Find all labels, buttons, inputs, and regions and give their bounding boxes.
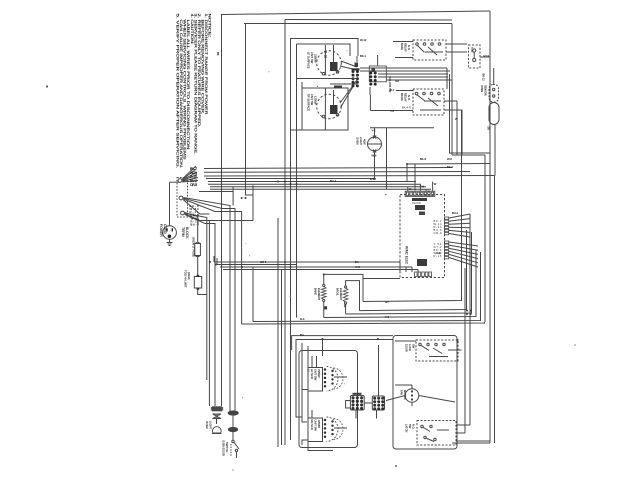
wire bus C2 left elbow — [216, 258, 218, 265]
relay K2 contact — [415, 92, 418, 95]
svg-text:Y-2: Y-2 — [390, 109, 394, 113]
R2 lead top — [345, 286, 347, 288]
connector P4 pin — [422, 272, 425, 277]
wire sw1 low link — [330, 83, 357, 85]
surface unit box inner — [297, 44, 351, 56]
wire vertical x470 — [469, 214, 471, 425]
terminal cluster A dot — [356, 70, 359, 73]
terminal cluster A dot — [356, 77, 359, 80]
wire fan C3 — [185, 214, 210, 406]
thermal fuse term 2 — [473, 58, 476, 61]
svg-text:BK-1: BK-1 — [360, 54, 366, 58]
wire bus C2 — [217, 264, 297, 266]
wire sw cluster right 1 — [360, 67, 447, 69]
label low link — [334, 86, 342, 88]
SW3 wire top — [322, 339, 324, 356]
wire to lock switch — [387, 79, 453, 81]
terminal grid TG1 dot — [356, 400, 359, 403]
svg-text:BROIL: BROIL — [400, 93, 404, 102]
SW3 contact dot a — [324, 377, 327, 380]
thermal fuse dashed box — [469, 45, 481, 68]
terminal grid TG1 dot — [360, 396, 363, 399]
wire P2 fan — [449, 214, 470, 218]
wire x302 down to box — [302, 343, 307, 422]
wire K1 left bottom — [395, 57, 413, 59]
wire drop to connector row — [419, 184, 421, 191]
relay K2 contact — [430, 92, 433, 95]
wire B3 branch down — [232, 187, 234, 206]
wire oval link — [232, 416, 234, 428]
svg-text:W-8: W-8 — [447, 157, 452, 161]
wire bus C4 — [223, 269, 418, 271]
terminal ring C — [181, 211, 185, 215]
wire OL1 up — [374, 128, 376, 137]
terminal ring B — [179, 196, 183, 200]
terminal cluster B dot — [369, 72, 372, 75]
SW2 lead bottom — [324, 117, 326, 130]
SW3 contact dot a — [324, 385, 327, 388]
relay K2 wire low — [420, 109, 441, 111]
wire plug top link — [170, 181, 180, 183]
wire vertical x370 relay — [369, 95, 371, 111]
svg-text:W/MC ELEC: W/MC ELEC — [405, 246, 409, 265]
wire P3 fan — [449, 248, 478, 254]
door switch term 2 — [235, 449, 237, 451]
wire vertical x415 from A1 — [414, 164, 416, 191]
wire bus C3 — [220, 266, 412, 268]
junction dot — [290, 183, 292, 185]
wire R1 top loop — [324, 274, 363, 301]
junction dot — [466, 310, 468, 312]
wire bus B4 — [210, 188, 431, 190]
terminal grid TG1 dot — [360, 400, 363, 403]
relay K2 contact — [423, 92, 426, 95]
fan motor M1 — [405, 389, 419, 403]
connector P1 outline — [405, 191, 435, 196]
svg-text:UNIT SW: UNIT SW — [310, 94, 314, 106]
svg-text:SWITCH: SWITCH — [225, 442, 229, 452]
thermal cutout TOD body — [194, 277, 201, 289]
svg-text:W-6: W-6 — [372, 154, 377, 158]
terminal cluster A dot — [352, 70, 355, 73]
wire P2 fan — [449, 223, 470, 224]
wire TOD to bus — [198, 290, 207, 295]
terminal grid TG1 dot — [356, 396, 359, 399]
fuse F1 cap bottom — [196, 255, 200, 257]
SW3 dashed oval b — [334, 368, 344, 389]
svg-text:LF SURFACE: LF SURFACE — [307, 52, 311, 69]
SW2 term bl — [322, 115, 325, 118]
SW3 exit left — [302, 390, 308, 397]
wire vertical x452 — [451, 24, 453, 156]
wire bus B2 — [208, 183, 421, 185]
svg-text:OR: OR — [487, 126, 490, 130]
broil element R2 zigzag — [343, 288, 348, 302]
connector P2 pin — [445, 220, 449, 222]
wire K2 left top — [396, 90, 413, 92]
svg-text:N.O.: N.O. — [407, 95, 411, 101]
relay K3 contact — [419, 343, 421, 345]
wire sw cluster right 4 — [378, 76, 448, 78]
wire plug to rings — [169, 182, 171, 225]
connector P3 pin — [445, 244, 449, 246]
wire bus C1 — [214, 261, 400, 263]
terminal grid TG1 outline — [350, 396, 364, 411]
relay K3 contact — [427, 343, 429, 345]
SW1 term bl — [322, 72, 325, 75]
wire bus D3 — [346, 232, 472, 314]
wire outer top border — [221, 11, 490, 15]
relay K3 blade 1 — [421, 345, 429, 350]
wire OL1 down — [374, 151, 376, 179]
clock cluster — [417, 259, 427, 266]
wire clusterA up — [356, 56, 358, 62]
terminal cluster A dot — [352, 77, 355, 80]
relay K1 contact — [423, 43, 426, 46]
wire vertical x281 — [281, 270, 283, 446]
svg-text:OR: OR — [395, 79, 399, 83]
wire bus D2 — [360, 230, 467, 311]
terminal cluster A dot — [356, 74, 359, 77]
SW2 second wire — [333, 90, 335, 105]
wire sensor down 1 — [489, 125, 491, 164]
terminal grid TG2 dot — [377, 404, 380, 407]
svg-text:BROIL: BROIL — [336, 288, 340, 296]
SW3 contact dot b — [331, 370, 333, 372]
wire relay K2 box bottom — [370, 110, 413, 112]
cluster B flag — [372, 69, 376, 73]
wire bus E2 — [296, 340, 393, 344]
oven light OL1 — [368, 137, 382, 151]
svg-text:BK: BK — [343, 304, 346, 308]
svg-text:W-12: W-12 — [360, 38, 367, 42]
terminal cluster B dot — [374, 72, 377, 75]
plug prong L — [166, 228, 167, 231]
wire plug stem — [169, 239, 171, 242]
connector P1 pin — [417, 192, 419, 195]
terminal cluster B dot — [369, 75, 372, 78]
svg-text:TERM: TERM — [181, 227, 185, 237]
SW4 wire link — [334, 427, 347, 429]
wire R1 bottom loop — [323, 302, 325, 318]
relay K3 blade 2 — [433, 348, 442, 354]
junction dot — [466, 313, 468, 315]
svg-text:BK: BK — [456, 339, 459, 343]
latch sw term 4 — [434, 438, 436, 440]
surface unit box inner left — [296, 44, 298, 120]
M1 out right — [419, 396, 455, 403]
SW3 contact dot b — [331, 378, 333, 380]
wire box link down — [301, 82, 303, 88]
wire lamp stem — [216, 419, 218, 424]
R1 bottom label — [324, 306, 327, 309]
latch sw term 1 — [421, 425, 423, 427]
svg-text:BU-4: BU-4 — [330, 179, 337, 183]
wire fan C4 — [185, 215, 215, 406]
wire TG2 up — [378, 345, 380, 396]
terminal grid TG2 dot — [381, 407, 384, 410]
junction dot — [374, 178, 376, 180]
terminal cluster B dot — [374, 79, 377, 82]
wire bus D5 — [253, 252, 481, 322]
SW1 contact block — [330, 62, 338, 71]
latch sw term 2 — [430, 425, 432, 427]
power cord plug body — [163, 226, 177, 240]
terminal grid TG2 dot — [381, 404, 384, 407]
svg-text:BK: BK — [355, 260, 359, 264]
wire vertical x253b — [252, 267, 254, 322]
wire x462 seg — [461, 110, 463, 155]
terminal grid TG2 outline — [372, 396, 384, 410]
svg-text:2350W: 2350W — [317, 369, 321, 378]
svg-text:RELAY: RELAY — [404, 93, 408, 102]
SW3 dashed oval — [327, 367, 338, 391]
SW3 contact dot b — [331, 382, 333, 384]
door switch blade — [234, 442, 239, 449]
wire P2 fan — [449, 230, 470, 232]
svg-text:Y-2: Y-2 — [372, 129, 376, 133]
svg-text:CORD: CORD — [163, 224, 167, 235]
connector P1 pin — [406, 192, 408, 195]
relay K3 dashed box — [416, 340, 458, 361]
wire door sw down — [236, 452, 238, 458]
wire x308 down to box — [308, 346, 333, 451]
relay K2 dashed box — [413, 89, 444, 115]
wire vertical x285 — [284, 20, 286, 446]
svg-text:BAKE: BAKE — [314, 288, 318, 295]
wire bus D6 — [242, 322, 485, 324]
wire fan B2 — [183, 198, 235, 411]
plug prong R — [172, 228, 173, 231]
wire fuse down — [197, 257, 199, 276]
SW4 contact dot a — [324, 423, 327, 426]
wire fan A — [182, 181, 198, 183]
junction dot — [215, 264, 217, 266]
control cluster blob 2 — [415, 205, 425, 210]
terminal grid TG2 dot — [381, 400, 384, 403]
SW2 center wire — [324, 90, 326, 117]
connector P3 pin — [445, 250, 449, 252]
svg-text:BK-4 R: BK-4 R — [402, 106, 411, 110]
wire drop x407b — [406, 164, 408, 182]
svg-text:TOD HI-LIMIT: TOD HI-LIMIT — [184, 270, 188, 288]
wire bus B3 — [210, 186, 426, 188]
wire bus B1 — [208, 181, 416, 183]
terminal grid TG2 dot — [377, 400, 380, 403]
svg-text:R-9: R-9 — [436, 251, 441, 255]
M1 dot — [411, 398, 413, 400]
OL1 tick top 2 — [373, 136, 376, 139]
wire drop to connector row — [432, 182, 434, 191]
wire fan B3 — [183, 199, 241, 267]
wire fan A — [182, 175, 197, 181]
SW1 second wire — [333, 45, 335, 62]
SW3 contact dot a — [324, 381, 327, 384]
wire inner right border — [494, 176, 496, 443]
wire drop C1 — [399, 262, 401, 272]
svg-text:N.O.: N.O. — [407, 45, 411, 51]
junction dot — [284, 181, 286, 183]
relay K2 blade 2 — [428, 98, 438, 106]
terminal grid TG2 dot — [373, 397, 376, 400]
terminal cluster B dot — [374, 75, 377, 78]
SW1 side wire 1 — [341, 61, 357, 67]
terminal grid TG2 dot — [377, 397, 380, 400]
connector P2 pin — [445, 223, 449, 225]
wire TG1-TG2 link — [364, 402, 372, 404]
control cluster blob 1 — [412, 198, 427, 201]
wire drop C2 — [405, 267, 407, 272]
wire fan C1 — [185, 213, 198, 243]
wire bus D4 — [324, 250, 476, 318]
wire corner to right border — [452, 154, 485, 156]
wire latch out 1 — [456, 424, 470, 426]
junction dot — [296, 183, 298, 185]
relay K3 contact — [435, 343, 437, 345]
SW2 contact block — [330, 105, 338, 114]
terminal grid TG2 dot — [373, 400, 376, 403]
wire R2 bottom drop — [345, 304, 347, 314]
wire bus C1 left elbow — [213, 256, 215, 262]
relay K2 contact — [438, 92, 441, 95]
connector P1 pin — [421, 192, 423, 195]
svg-text:RELAY: RELAY — [404, 43, 408, 52]
connector P4 pin — [425, 272, 428, 277]
ground bar 2 — [168, 243, 172, 245]
svg-text:LR SUR: LR SUR — [310, 369, 314, 379]
surface unit box outer — [291, 39, 359, 131]
svg-text:BK: BK — [216, 52, 220, 56]
wire second top border — [285, 19, 452, 22]
wire P3 fan — [449, 254, 478, 262]
sensor dot 2 — [493, 95, 495, 97]
OL1 bar — [368, 143, 382, 145]
SW4 contact dot a — [324, 431, 327, 434]
connector P3 pin — [445, 247, 449, 249]
relay K1 wire mid — [425, 51, 444, 53]
wire sw cluster right 2 — [360, 70, 450, 72]
lower burner box — [299, 351, 358, 448]
SW3 contact dot a — [324, 372, 327, 375]
svg-text:N.O.: N.O. — [412, 424, 416, 430]
SW4 contact dot a — [324, 436, 327, 439]
OL1 tick bot 1 — [373, 150, 376, 153]
svg-text:SW: SW — [408, 424, 412, 429]
R1 lead top — [323, 284, 325, 286]
terminal grid TG2 dot — [377, 407, 380, 410]
svg-text:BU-2: BU-2 — [452, 211, 459, 215]
plug ground pin — [168, 235, 171, 238]
wire vertical x465 — [464, 268, 466, 433]
svg-text:R-7: R-7 — [390, 88, 395, 92]
OL1 tick bot 2 — [373, 150, 376, 153]
svg-text:DOOR: DOOR — [405, 344, 409, 352]
connector P1 pin — [424, 192, 426, 195]
wire sw1 to sw2 link — [297, 78, 358, 80]
svg-text:CLOCK: CLOCK — [412, 201, 421, 205]
terminal grid TG2 dot — [381, 397, 384, 400]
SW3 wire link — [334, 376, 347, 378]
lamp base — [212, 433, 222, 435]
wire vertical x230 — [229, 215, 231, 412]
wire OL1 header — [370, 127, 434, 129]
junction dot — [470, 313, 472, 315]
svg-text:UNIT SW: UNIT SW — [310, 52, 314, 64]
SW4 contact dot a — [324, 427, 327, 430]
terminal grid TG1 dot — [351, 396, 354, 399]
svg-text:ELEMENT: ELEMENT — [317, 288, 321, 301]
TG1 top pins — [353, 393, 362, 395]
relay K3 contact — [443, 343, 445, 345]
SW3 wire top b — [316, 356, 318, 368]
wire drop to connector row — [407, 187, 409, 191]
wire latch out 3 — [456, 440, 490, 442]
relay K3 bar — [429, 356, 448, 358]
SW4 contact dot b — [331, 433, 333, 435]
wire vertical x296 upper — [296, 44, 298, 318]
wire K3 top — [395, 340, 416, 342]
svg-text:SW: SW — [412, 344, 416, 349]
terminal cluster A dot — [352, 74, 355, 77]
terminal grid TG2 dot — [373, 404, 376, 407]
SW1 side wire 2 — [340, 66, 357, 70]
connector P4 pin — [418, 272, 421, 277]
wire vertical x386 — [386, 128, 388, 189]
oven sensor dashed pill — [489, 85, 499, 103]
svg-text:LATCH: LATCH — [405, 424, 409, 432]
wire vertical x485 — [484, 155, 486, 322]
SW3 wire top a — [311, 356, 313, 368]
svg-text:RR SUR: RR SUR — [310, 420, 314, 430]
M1 wire bottom — [411, 402, 413, 406]
wire P3 fan — [449, 245, 478, 250]
cluster A cap — [352, 68, 360, 70]
SW4 wire top a — [311, 410, 313, 418]
relay K1 contact — [431, 43, 434, 46]
OL1 tick top 1 — [373, 136, 376, 139]
svg-text:GY-3: GY-3 — [483, 54, 490, 58]
svg-text:OVEN DOOR: OVEN DOOR — [222, 440, 226, 456]
wire drop C4 — [417, 270, 419, 273]
svg-text:1250W: 1250W — [314, 96, 318, 105]
connector P1 pin — [431, 192, 433, 195]
svg-text:LIGHT: LIGHT — [359, 137, 363, 145]
switch oval 2 — [228, 427, 238, 432]
SW3 contact dot a — [324, 368, 327, 371]
SW3 contact dot b — [331, 374, 333, 376]
svg-text:SENSOR: SENSOR — [484, 85, 487, 96]
thermal fuse link — [473, 52, 475, 58]
bake element R1 zigzag — [321, 287, 326, 300]
wire bus E1 — [292, 336, 393, 350]
latch switch dashed box — [417, 421, 456, 446]
svg-text:ELEMENT: ELEMENT — [339, 288, 343, 301]
wire outer left border — [221, 15, 223, 407]
wire oval2 down — [232, 432, 234, 440]
svg-text:BU: BU — [300, 333, 304, 337]
wire sensor up — [493, 68, 495, 85]
lamp fuse body — [212, 406, 222, 411]
terminal cluster A dot — [356, 84, 359, 87]
connector P1 pin — [414, 192, 416, 195]
wire sensor down 2 — [494, 125, 496, 176]
svg-text:BAKE: BAKE — [400, 43, 404, 50]
terminal cluster B dot — [369, 83, 372, 86]
SW2 side wire 1 — [340, 80, 357, 103]
wire bus B5 partial — [199, 191, 233, 193]
ground bar 3 — [169, 245, 171, 247]
latch bar — [437, 429, 449, 431]
